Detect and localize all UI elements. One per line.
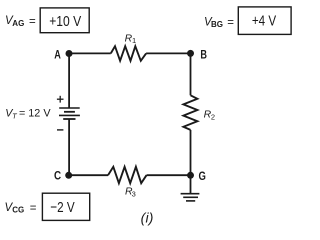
resistor R3 <box>108 167 147 183</box>
battery minus sign <box>57 129 63 131</box>
ground <box>181 175 200 201</box>
box VBG value +4 V <box>238 7 291 35</box>
svg-text:+10 V: +10 V <box>49 13 81 30</box>
svg-text:AG: AG <box>12 19 24 28</box>
label VCG <box>5 202 37 215</box>
wire B to R2 (right upper) <box>190 53 192 95</box>
svg-text:A: A <box>54 47 61 61</box>
node C <box>65 172 72 179</box>
svg-text:=: = <box>29 16 36 28</box>
label R1 <box>125 33 137 45</box>
label VAG <box>5 15 36 28</box>
wire A to R1 (top left) <box>69 52 111 54</box>
label VT = 12 V <box>5 108 51 121</box>
box VAG value +10 V <box>40 8 89 33</box>
box VCG value -2 V <box>42 193 89 220</box>
svg-text:3: 3 <box>132 189 136 198</box>
battery plus sign <box>57 96 64 103</box>
svg-text:B: B <box>200 47 207 61</box>
wire R2 to G (right lower) <box>190 130 192 175</box>
label VBG <box>204 16 234 29</box>
node B <box>187 50 194 57</box>
wire battery to A (left upper) <box>68 53 70 108</box>
wire R3 to C (bottom left) <box>69 174 108 176</box>
svg-text:(i): (i) <box>141 210 154 226</box>
svg-text:BG: BG <box>211 20 223 29</box>
svg-text:G: G <box>199 169 206 183</box>
node A <box>66 50 73 57</box>
label R2 <box>204 110 215 122</box>
svg-text:C: C <box>54 169 61 183</box>
wire G to R3 (bottom right) <box>147 174 191 176</box>
wire R1 to B (top right) <box>146 52 190 54</box>
svg-text:2: 2 <box>211 113 215 122</box>
resistor R2 <box>183 95 197 130</box>
resistor R1 <box>111 46 146 61</box>
svg-text:CG: CG <box>12 206 24 215</box>
svg-text:T: T <box>12 112 18 121</box>
svg-text:+4 V: +4 V <box>252 13 276 30</box>
svg-text:−2 V: −2 V <box>50 199 74 216</box>
battery VT <box>59 108 80 119</box>
svg-text:=: = <box>30 202 37 214</box>
wire C up to battery <box>68 119 70 175</box>
svg-text:1: 1 <box>132 36 136 45</box>
svg-text:=: = <box>227 17 234 29</box>
label R3 <box>125 187 136 199</box>
svg-text:= 12 V: = 12 V <box>19 108 51 120</box>
node G <box>187 172 194 179</box>
